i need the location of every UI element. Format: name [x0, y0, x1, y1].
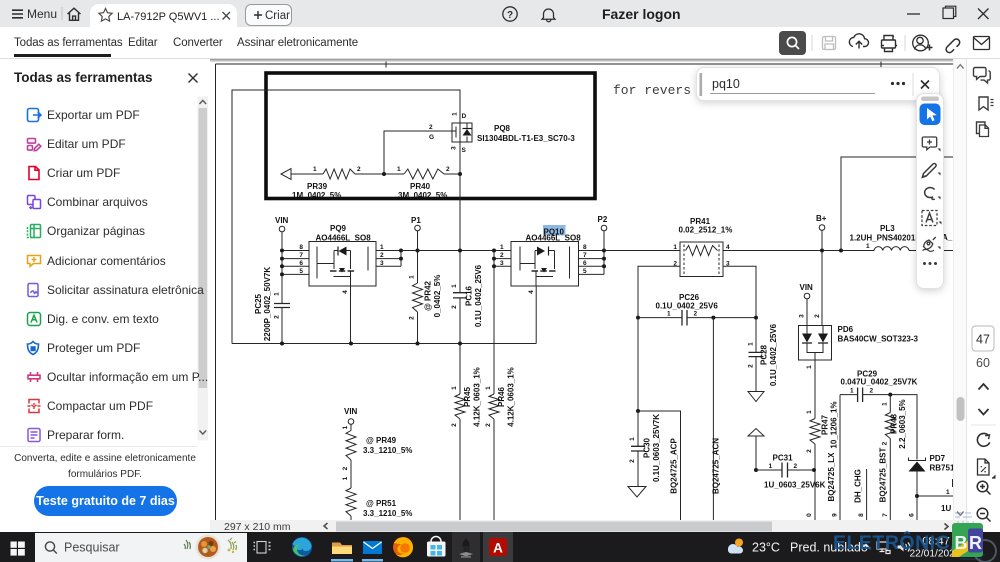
- svg-text:5: 5: [299, 268, 303, 275]
- svg-text:7: 7: [299, 252, 303, 259]
- svg-text:3.3_1210_5%: 3.3_1210_5%: [363, 509, 412, 518]
- svg-text:9: 9: [832, 513, 839, 517]
- svg-text:0.02_2512_1%: 0.02_2512_1%: [679, 226, 733, 235]
- edge: [292, 537, 312, 557]
- svg-text:4: 4: [342, 290, 349, 294]
- svg-text:3: 3: [500, 260, 504, 267]
- svg-text:2: 2: [794, 463, 798, 470]
- svg-text:B: B: [955, 533, 968, 553]
- svg-text:P2: P2: [598, 215, 608, 224]
- svg-text:1: 1: [748, 342, 755, 346]
- svg-text:VIN: VIN: [275, 216, 289, 225]
- svg-text:1: 1: [342, 476, 349, 480]
- wire: rail P2 to PR41: [604, 250, 680, 252]
- capacitor PC25: [254, 267, 290, 342]
- svg-text:1: 1: [397, 166, 401, 173]
- transistor PQ9: [299, 224, 384, 286]
- svg-text:1: 1: [673, 244, 677, 251]
- wire: PQ10 left pins tie going down: [494, 251, 511, 395]
- capacitor PC16: [451, 251, 483, 344]
- node P2: [598, 215, 608, 231]
- junctions: VIN pin taps: [280, 249, 284, 253]
- svg-text:1: 1: [500, 244, 504, 251]
- wire: PR41 pin4 rail to B+/PL3: [723, 250, 874, 252]
- svg-text:0: 0: [806, 513, 813, 517]
- svg-text:PC30: PC30: [643, 437, 652, 458]
- wire: PC29 left leg down: [839, 395, 841, 521]
- junction PC16/rail: [458, 249, 462, 253]
- svg-text:3.3_1210_5%: 3.3_1210_5%: [363, 446, 412, 455]
- wire: PR41 pin2 down: [638, 266, 680, 317]
- bing food image: [184, 535, 237, 560]
- svg-text:0.1U_0603_25V7K: 0.1U_0603_25V7K: [652, 414, 661, 482]
- svg-text:AO4466L_SO8: AO4466L_SO8: [316, 234, 372, 243]
- resistor PR42: [409, 251, 443, 344]
- diode PD7 (schottky): [909, 454, 955, 496]
- folder: [332, 543, 352, 562]
- resistor PR51: [346, 488, 412, 521]
- start: [11, 542, 25, 556]
- wire: PR41 pin3 down: [723, 266, 756, 317]
- tray: [862, 545, 871, 550]
- svg-text:7: 7: [583, 252, 587, 259]
- power arrow (PC31 net): [748, 429, 764, 471]
- svg-text:PD6: PD6: [838, 325, 854, 334]
- svg-text:2: 2: [748, 364, 755, 368]
- junction PC31 left: [754, 468, 758, 472]
- svg-text:2: 2: [870, 388, 874, 395]
- wire: PD7 node: [917, 479, 953, 521]
- svg-text:1: 1: [806, 365, 813, 369]
- wire: PL3 to right edge: [909, 250, 953, 252]
- junctions: PC26 row: [636, 316, 640, 320]
- svg-text:A: A: [493, 541, 503, 556]
- wire: PQ10 right pins to P2 tie: [579, 231, 605, 275]
- svg-text:0.1U_0402_25V6: 0.1U_0402_25V6: [474, 264, 483, 327]
- svg-text:4.12K_0603_1%: 4.12K_0603_1%: [473, 367, 482, 427]
- svg-text:2: 2: [274, 315, 281, 319]
- junctions: P2 tie: [602, 249, 606, 253]
- svg-text:BAS40CW_SOT323-3: BAS40CW_SOT323-3: [838, 335, 919, 344]
- capacitor PC30: [629, 411, 661, 487]
- svg-text:BQ24725_LX: BQ24725_LX: [827, 452, 836, 502]
- svg-text:2: 2: [500, 252, 504, 259]
- junction ACP branch: [636, 409, 640, 413]
- wire: ACN line: [712, 318, 714, 521]
- wire: PQ9 pin4: [350, 286, 352, 344]
- svg-text:2: 2: [451, 423, 458, 427]
- svg-text:Menu: Menu: [27, 7, 57, 21]
- svg-text:SI1304BDL-T1-E3_SC70-3: SI1304BDL-T1-E3_SC70-3: [477, 134, 575, 143]
- svg-text:@ PR49: @ PR49: [366, 436, 397, 445]
- wire: PQ8 gate: [384, 131, 452, 174]
- svg-text:PR45: PR45: [463, 386, 472, 407]
- task view: [254, 542, 271, 554]
- node P1: [411, 216, 421, 251]
- junction P1/rail: [416, 249, 420, 253]
- svg-text:P1: P1: [411, 216, 421, 225]
- svg-text:B+: B+: [816, 214, 827, 223]
- svg-text:pq10: pq10: [712, 77, 740, 91]
- firefox: [393, 537, 413, 557]
- svg-text:PR46: PR46: [497, 386, 506, 407]
- svg-text:PR40: PR40: [410, 182, 431, 191]
- wire: PC29 right to PD7: [890, 395, 917, 460]
- svg-text:4.12K_0603_1%: 4.12K_0603_1%: [507, 367, 516, 427]
- svg-text:2: 2: [806, 449, 813, 453]
- transistor PQ8: [429, 112, 575, 154]
- node B+: [816, 214, 827, 251]
- junction PR40/source: [458, 172, 462, 176]
- svg-text:2: 2: [357, 166, 361, 173]
- junction PR48/PC29: [888, 393, 892, 397]
- svg-text:0.1U_0402_25V6: 0.1U_0402_25V6: [769, 323, 778, 386]
- svg-text:0_0402_5%: 0_0402_5%: [433, 275, 442, 318]
- resistor PR47: [806, 401, 839, 470]
- junction B+/rail: [820, 249, 824, 253]
- wire: ACP branch: [638, 318, 681, 521]
- active tab: [90, 4, 237, 27]
- svg-text:2200P_0402_50V7K: 2200P_0402_50V7K: [263, 267, 272, 342]
- wire: PR49 to PR51: [350, 460, 352, 488]
- capacitor PC29: [840, 370, 918, 403]
- node VIN (PD6): [800, 283, 814, 299]
- svg-text:1: 1: [380, 244, 384, 251]
- svg-text:1: 1: [806, 410, 813, 414]
- svg-text:1: 1: [866, 243, 870, 250]
- svg-text:2: 2: [629, 459, 636, 463]
- wire: PQ8 source to divider: [459, 142, 461, 251]
- transistor PQ10 (search highlight): [500, 225, 587, 286]
- svg-text:PR47: PR47: [821, 414, 830, 435]
- + Criar button: [245, 4, 292, 26]
- highlight box around PQ8 circuit: [266, 73, 595, 199]
- svg-text:8: 8: [583, 244, 587, 251]
- svg-text:2: 2: [380, 252, 384, 259]
- svg-text:1.2UH_PNS40201F: 1.2UH_PNS40201F: [850, 234, 921, 243]
- svg-text:PC25: PC25: [254, 293, 263, 314]
- svg-text:LA-7912P Q5WV1 ...: LA-7912P Q5WV1 ...: [117, 11, 220, 23]
- junctions: PQ9 output tie: [399, 249, 403, 253]
- svg-text:RB751: RB751: [930, 464, 954, 473]
- svg-text:8: 8: [299, 244, 303, 251]
- svg-text:1: 1: [485, 386, 492, 390]
- svg-text:G: G: [429, 134, 434, 141]
- svg-text:3: 3: [451, 146, 458, 150]
- svg-text:2: 2: [342, 466, 349, 470]
- svg-text:2: 2: [409, 316, 416, 320]
- node VIN (left): [275, 216, 289, 232]
- svg-text:3: 3: [799, 314, 806, 318]
- junctions: PQ10 input tie: [492, 249, 496, 253]
- wire: PD6 pin1 down: [814, 360, 816, 419]
- wire: DH_CHG stub: [866, 469, 868, 521]
- svg-text:PL3: PL3: [880, 224, 895, 233]
- svg-text:PC28: PC28: [760, 344, 769, 365]
- svg-text:1: 1: [882, 402, 889, 406]
- open app tile (dark icon): [452, 532, 480, 562]
- svg-text:VIN: VIN: [344, 407, 358, 416]
- resistor PR40: [397, 166, 450, 200]
- wire: LX node down: [814, 470, 816, 521]
- resistor PR48: [882, 395, 908, 521]
- svg-text:BQ24725_ACP: BQ24725_ACP: [670, 438, 679, 494]
- svg-text:2: 2: [451, 305, 458, 309]
- svg-text:PQ8: PQ8: [494, 124, 511, 133]
- svg-text:23°C: 23°C: [752, 541, 780, 555]
- svg-text:1: 1: [313, 166, 317, 173]
- svg-text:2: 2: [882, 441, 889, 445]
- junction branch/rail: [839, 249, 843, 253]
- svg-text:?: ?: [507, 10, 513, 21]
- icons: [26, 107, 42, 123]
- ground (PC28): [748, 392, 764, 402]
- svg-text:1: 1: [451, 386, 458, 390]
- svg-text:1: 1: [769, 463, 773, 470]
- svg-text:2: 2: [814, 314, 821, 318]
- ground (PC30): [628, 487, 646, 498]
- capacitor PC28: [748, 318, 779, 392]
- svg-text:PC16: PC16: [465, 285, 474, 306]
- svg-text:1: 1: [850, 388, 854, 395]
- svg-text:2.2_0603_5%: 2.2_0603_5%: [898, 399, 907, 448]
- schematic sheet frame: [216, 62, 954, 522]
- junction PC31/LX: [812, 468, 816, 472]
- svg-text:2: 2: [446, 166, 450, 173]
- resistor PR49: [342, 424, 412, 460]
- wire: branch up to right edge: [841, 157, 953, 251]
- weather: [735, 539, 743, 547]
- wire: VIN vertical with pin taps: [282, 232, 309, 344]
- svg-text:AO4466L_SO8: AO4466L_SO8: [526, 234, 582, 243]
- svg-text:D: D: [462, 113, 467, 120]
- svg-text:0.1U_0402_25V6: 0.1U_0402_25V6: [656, 302, 719, 311]
- svg-text:PC31: PC31: [773, 454, 794, 463]
- PDF page background: [210, 59, 953, 61]
- wire: PQ10 pin4 to bottom rail: [535, 286, 537, 344]
- resistor PR45: [451, 344, 482, 522]
- svg-text:3M_0402_5%: 3M_0402_5%: [398, 191, 447, 200]
- resistor PR39: [292, 166, 361, 200]
- capacitor PC31: [756, 454, 826, 490]
- wire: PR40 to source line: [444, 173, 460, 175]
- svg-text:1: 1: [451, 284, 458, 288]
- wire: bottom rail: [232, 343, 536, 345]
- junctions: bottom rail: [280, 342, 284, 346]
- wire: drain net loop (left big L): [232, 90, 460, 344]
- wire: B+ down to PD6 pin2: [821, 251, 823, 326]
- svg-text:1: 1: [342, 425, 349, 429]
- svg-text:Criar: Criar: [265, 10, 290, 22]
- svg-text:1: 1: [409, 275, 416, 279]
- BR logo: [952, 523, 983, 557]
- menu items: [47, 108, 140, 122]
- resistor PR46: [485, 367, 516, 521]
- search active button: [779, 31, 806, 55]
- svg-text:S: S: [462, 147, 467, 154]
- svg-text:0.047U_0402_25V7K: 0.047U_0402_25V7K: [841, 378, 918, 387]
- svg-text:10_1206_1%: 10_1206_1%: [830, 401, 839, 448]
- node VIN (lower): [344, 407, 358, 424]
- inductor PL3: [850, 224, 921, 251]
- svg-text:2: 2: [429, 124, 433, 131]
- svg-text:for revers: for revers: [613, 83, 691, 98]
- svg-text:1U_0603_25V6K: 1U_0603_25V6K: [764, 481, 826, 490]
- store: [427, 537, 446, 557]
- search box: [35, 533, 247, 562]
- svg-text:6: 6: [299, 260, 303, 267]
- wire: VIN to PD6 pin3: [806, 299, 808, 326]
- svg-text:R: R: [969, 533, 982, 553]
- svg-text:1: 1: [629, 437, 636, 441]
- svg-text:47: 47: [976, 333, 990, 347]
- resistor PR41 (sense): [673, 217, 732, 277]
- svg-text:Fazer logon: Fazer logon: [602, 6, 681, 22]
- svg-text:Pesquisar: Pesquisar: [64, 541, 120, 555]
- mail: [363, 541, 382, 562]
- junction PD7 node: [915, 494, 919, 498]
- svg-text:1M_0402_5%: 1M_0402_5%: [292, 191, 341, 200]
- svg-text:PD7: PD7: [930, 454, 946, 463]
- wire: PQ9 right pins tie: [376, 251, 401, 267]
- diode PD6 (dual): [799, 325, 919, 360]
- svg-text:60: 60: [976, 356, 990, 370]
- panel scrollbar: [197, 96, 209, 481]
- svg-text:2: 2: [485, 423, 492, 427]
- capacitor PC26: [638, 293, 756, 326]
- svg-text:VIN: VIN: [800, 283, 814, 292]
- svg-text:4: 4: [726, 244, 730, 251]
- svg-text:@ PR51: @ PR51: [366, 499, 397, 508]
- svg-text:1: 1: [274, 292, 281, 296]
- wire: main P1 rail: [401, 250, 511, 252]
- svg-text:@ PR42: @ PR42: [424, 280, 433, 311]
- svg-text:4: 4: [528, 290, 535, 294]
- junction gate/divider: [382, 172, 386, 176]
- acrobat tile: [483, 532, 513, 562]
- svg-text:2: 2: [694, 311, 698, 318]
- underlines: [331, 559, 353, 562]
- svg-text:BQ24725_ACN: BQ24725_ACN: [712, 438, 721, 494]
- wire: PR39 to PR40: [355, 173, 404, 175]
- arrow head (net stub): [281, 169, 323, 180]
- svg-text:1: 1: [452, 112, 459, 116]
- svg-text:1: 1: [667, 311, 671, 318]
- svg-text:PQ9: PQ9: [330, 224, 347, 233]
- svg-text:PR39: PR39: [307, 182, 328, 191]
